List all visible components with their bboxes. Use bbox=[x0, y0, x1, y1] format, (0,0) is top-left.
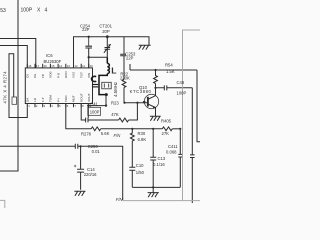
bold C mark bbox=[92, 76, 97, 81]
svg-text:220K: 220K bbox=[120, 75, 130, 80]
svg-text:R405: R405 bbox=[161, 118, 172, 123]
resistor R23 squiggle bbox=[119, 118, 129, 122]
svg-text:C411: C411 bbox=[168, 144, 178, 149]
svg-text:17: 17 bbox=[36, 64, 40, 68]
svg-text:XOB: XOB bbox=[49, 71, 53, 78]
wire long row y146 + C256 bbox=[0, 144, 123, 201]
collector chain R54 bbox=[154, 70, 158, 96]
trimmer CT201 bbox=[104, 37, 111, 58]
svg-text:4.5MHz: 4.5MHz bbox=[113, 82, 118, 97]
IC pin stubs bottom bbox=[27, 104, 88, 108]
svg-text:20P: 20P bbox=[102, 29, 110, 34]
capacitor C14 bbox=[77, 146, 84, 190]
crystal riser to XOUT wire bbox=[105, 95, 107, 106]
IC U1 BU2630F body bbox=[25, 68, 92, 104]
svg-text:KTC3880: KTC3880 bbox=[130, 89, 152, 94]
svg-text:16: 16 bbox=[44, 64, 48, 68]
wire bus VSS pin8 up and right bbox=[74, 37, 150, 68]
svg-text:TDM: TDM bbox=[49, 95, 53, 102]
svg-text:11: 11 bbox=[82, 64, 85, 68]
transistor Q10 bbox=[144, 94, 158, 108]
resistor R22 chain from bus bbox=[123, 37, 125, 54]
wire R278 row bbox=[66, 104, 91, 129]
capacitor C41 chain bbox=[81, 104, 118, 123]
wire XIN node bbox=[89, 56, 108, 58]
inductor L (bold coil) bbox=[99, 57, 109, 94]
svg-text:P-I: P-I bbox=[56, 98, 60, 102]
svg-text:C13: C13 bbox=[158, 156, 166, 161]
svg-text:ROUT: ROUT bbox=[79, 93, 83, 102]
svg-text:15: 15 bbox=[51, 64, 55, 68]
svg-text:27K: 27K bbox=[162, 131, 170, 136]
svg-text:47K X 4 R274: 47K X 4 R274 bbox=[3, 71, 8, 104]
svg-text:IC6: IC6 bbox=[46, 53, 53, 58]
svg-text:4: 4 bbox=[45, 7, 48, 13]
svg-text:RPO: RPO bbox=[64, 71, 68, 78]
svg-text:FB: FB bbox=[41, 74, 45, 78]
svg-text:13: 13 bbox=[67, 64, 71, 68]
svg-text:100P: 100P bbox=[21, 7, 33, 13]
labels bbox=[0, 7, 47, 14]
svg-text:R54: R54 bbox=[165, 62, 173, 67]
IC pin numbers bbox=[28, 64, 93, 108]
svg-text:0.1/16: 0.1/16 bbox=[153, 162, 165, 167]
ground at bus bbox=[139, 45, 151, 49]
node dots top bbox=[88, 35, 109, 58]
wire1 top right bbox=[130, 64, 197, 70]
svg-text:53: 53 bbox=[0, 8, 6, 14]
svg-text:10: 10 bbox=[90, 64, 94, 68]
capacitor C253 plates (bold) bbox=[92, 84, 108, 96]
wire W1 long left vertical bbox=[0, 0, 18, 171]
svg-text:5.6K: 5.6K bbox=[101, 131, 110, 136]
svg-text:22P: 22P bbox=[126, 56, 134, 61]
svg-text:1.5K: 1.5K bbox=[166, 69, 175, 74]
svg-text:TRO: TRO bbox=[64, 95, 68, 102]
resistor R405 bbox=[162, 127, 172, 131]
svg-text:TST: TST bbox=[79, 72, 83, 78]
C411 chain bbox=[178, 129, 182, 188]
C14 ground bbox=[74, 191, 85, 196]
bottom ground bbox=[148, 187, 159, 197]
svg-text:100P: 100P bbox=[90, 110, 100, 115]
svg-text:0.068: 0.068 bbox=[166, 149, 177, 154]
bold wire to crystal bottom bbox=[99, 74, 107, 95]
svg-text:CT201: CT201 bbox=[99, 24, 112, 29]
base wire bbox=[124, 102, 148, 104]
svg-text:F/N: F/N bbox=[114, 133, 122, 138]
svg-text:R23: R23 bbox=[111, 100, 119, 105]
crystal X201 bbox=[102, 82, 111, 89]
resistor R30 + C10 bbox=[129, 129, 135, 188]
svg-text:F-T: F-T bbox=[41, 97, 45, 102]
IC pin names vertical bbox=[26, 71, 91, 102]
svg-text:R30: R30 bbox=[138, 131, 146, 136]
svg-text:C10: C10 bbox=[136, 163, 144, 168]
svg-text:R278: R278 bbox=[81, 131, 92, 136]
left loop R274 bbox=[9, 54, 27, 118]
svg-text:P-B: P-B bbox=[56, 73, 60, 78]
svg-text:220/16: 220/16 bbox=[84, 172, 97, 177]
svg-text:C41: C41 bbox=[90, 101, 98, 106]
gray borders bbox=[0, 30, 200, 208]
svg-text:XOUT: XOUT bbox=[87, 93, 91, 102]
svg-text:22P: 22P bbox=[82, 27, 90, 32]
capacitor C48 wire bbox=[156, 85, 193, 90]
svg-text:0.01: 0.01 bbox=[92, 149, 101, 154]
svg-text:C14: C14 bbox=[87, 167, 95, 172]
svg-text:C48: C48 bbox=[177, 80, 185, 85]
svg-text:100P: 100P bbox=[177, 90, 187, 95]
C13 chain bbox=[150, 129, 156, 188]
svg-text:VSS: VSS bbox=[72, 72, 76, 78]
svg-text:CE: CE bbox=[33, 74, 37, 78]
svg-text:MUT: MUT bbox=[72, 95, 76, 102]
wire W3 to pin1 bbox=[0, 46, 27, 68]
svg-text:6.8K: 6.8K bbox=[138, 137, 147, 142]
svg-text:18: 18 bbox=[28, 64, 32, 68]
svg-text:47K: 47K bbox=[111, 112, 119, 117]
svg-text:XIN: XIN bbox=[87, 73, 91, 78]
svg-text:1/50: 1/50 bbox=[136, 170, 145, 175]
svg-text:L: L bbox=[111, 65, 116, 75]
svg-text:14: 14 bbox=[59, 64, 63, 68]
svg-text:F/N: F/N bbox=[116, 197, 124, 202]
bottom wire bbox=[132, 186, 180, 188]
wire XOUT from pin11 bottom bbox=[88, 105, 106, 107]
wire W2 to pin2 bbox=[0, 39, 36, 68]
emitter ground bbox=[150, 108, 161, 121]
IC pin stubs top bbox=[27, 64, 88, 68]
svg-text:12: 12 bbox=[74, 64, 78, 68]
capacitor C254 bbox=[88, 37, 90, 46]
R22 squiggle bbox=[122, 80, 126, 88]
